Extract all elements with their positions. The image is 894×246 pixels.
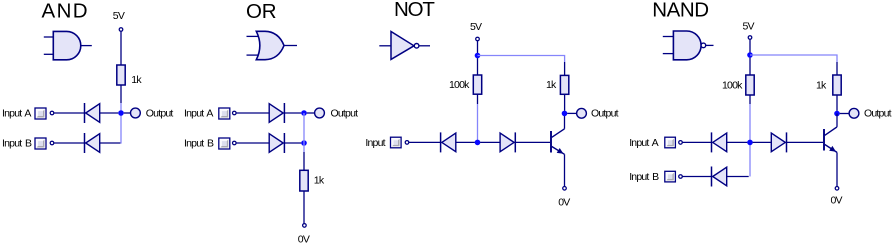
svg-text:1k: 1k — [131, 74, 142, 86]
svg-text:Input A: Input A — [184, 108, 213, 120]
wire D1 to node (OR) — [284, 112, 301, 114]
wire D2 to Q1 base (NOT) — [515, 141, 550, 143]
svg-text:Output: Output — [146, 108, 174, 120]
wire R1 to input node (NOT, light) — [477, 104, 479, 142]
svg-text:100k: 100k — [449, 79, 470, 91]
input switch Input A (AND) — [35, 108, 46, 119]
transistor Q1 (NAND) — [824, 127, 837, 152]
label Input A (AND) — [2, 108, 31, 120]
svg-text:0V: 0V — [558, 196, 570, 208]
wire 5V to R1 (AND) — [120, 32, 122, 65]
svg-text:Input A: Input A — [629, 137, 658, 149]
title AND — [42, 0, 89, 23]
junction output node (OR) — [301, 110, 307, 116]
wire D2 to node (AND) — [100, 142, 121, 144]
wire R2 to output node (NAND) — [836, 95, 838, 111]
label 0V (NOT) — [558, 196, 570, 208]
svg-text:Output: Output — [591, 108, 619, 120]
resistor R2 1k (NOT) — [560, 75, 568, 94]
label Input B (NAND) — [629, 171, 659, 183]
5V supply terminal (NAND) — [748, 36, 752, 40]
wire Q1 collector to node (NAND) — [836, 114, 838, 127]
wire R1 to 0V (OR) — [303, 191, 305, 224]
wire D1 to node (NAND) — [727, 141, 748, 143]
value label 100k (NAND) — [722, 80, 743, 92]
wire 5V node to R2 1k (NOT, light) — [478, 56, 565, 63]
svg-text:100k: 100k — [722, 80, 743, 92]
svg-text:0V: 0V — [831, 195, 843, 207]
junction 5V node (NOT) — [475, 53, 481, 59]
wire input B to D2 (AND) — [54, 142, 85, 144]
title NAND — [652, 0, 708, 22]
output terminal (AND) — [131, 108, 141, 118]
svg-text:Input B: Input B — [184, 138, 214, 150]
svg-text:OR: OR — [246, 0, 276, 23]
output terminal (NOT) — [577, 108, 587, 118]
svg-text:NOT: NOT — [394, 0, 435, 21]
title NOT — [394, 0, 435, 21]
svg-text:NAND: NAND — [652, 0, 708, 22]
5V supply terminal (AND) — [119, 28, 123, 32]
wire input A to D1 (AND) — [54, 112, 85, 114]
wire R1 lead down (NOT) — [477, 94, 479, 104]
diode D2 (NOT) — [500, 132, 515, 152]
label 0V (NAND) — [831, 195, 843, 207]
wire node to output (NAND) — [840, 113, 849, 115]
transistor Q1 (NOT) — [551, 129, 565, 155]
value label 1k (OR) — [314, 175, 325, 187]
input switch Input B (NAND) — [665, 171, 676, 182]
wire R1 lead down (NAND) — [749, 95, 751, 104]
value label 1k (NOT) — [546, 79, 557, 91]
svg-text:5V: 5V — [113, 10, 125, 22]
wire R1 to input node (NAND, light) — [749, 104, 751, 177]
wire D3 to Q1 base (NAND) — [787, 141, 824, 143]
svg-text:1k: 1k — [314, 175, 325, 187]
input terminal B (OR) — [233, 141, 237, 145]
NOT gate symbol — [379, 32, 430, 60]
diode D2 (OR input B) — [269, 133, 284, 153]
junction input node (NAND) — [747, 140, 753, 146]
wire 5V node to R2 1k (NAND, light) — [750, 55, 837, 62]
wire input A to D1 (NAND) — [682, 141, 711, 143]
input terminal A (OR) — [233, 111, 237, 115]
0V ground terminal (NOT) — [563, 187, 567, 191]
label 5V (NOT supply) — [470, 21, 482, 33]
wire 5V node to R1 (NOT) — [477, 58, 479, 75]
junction output node (NAND) — [834, 111, 840, 117]
input switch Input (NOT) — [391, 137, 402, 148]
svg-text:1k: 1k — [816, 80, 827, 92]
svg-text:Output: Output — [864, 108, 892, 120]
NAND gate symbol — [663, 31, 714, 60]
input terminal B (NAND) — [679, 175, 683, 179]
diode D1 (AND input A) — [85, 103, 100, 123]
wire D2 to node column (NAND) — [727, 176, 749, 178]
label Output (OR) — [331, 108, 359, 120]
input switch Input B (AND) — [35, 138, 46, 149]
wire node B to R1 (OR) — [303, 152, 305, 170]
label Output (NOT) — [591, 108, 619, 120]
OR gate symbol — [247, 31, 298, 59]
input switch Input A (NAND) — [665, 137, 676, 148]
junction 5V node (NAND) — [747, 52, 753, 58]
input terminal (NOT) — [405, 141, 409, 145]
title OR — [246, 0, 276, 23]
value label 100k (NOT) — [449, 79, 470, 91]
diode D2 (NAND input B) — [712, 167, 727, 187]
label Input (NOT) — [365, 137, 385, 149]
5V supply terminal (NOT) — [476, 37, 480, 41]
input terminal B (AND) — [50, 141, 54, 145]
wire node to D2 (NOT) — [480, 141, 500, 143]
diode D3 (NAND) — [771, 132, 786, 152]
wire R1 to output node (AND, light) — [120, 103, 122, 144]
wire input B to D2 (OR) — [236, 142, 269, 144]
junction output node (NOT) — [562, 111, 568, 117]
0V ground terminal (NAND) — [835, 187, 839, 191]
label Input B (OR) — [184, 138, 214, 150]
resistor R1 100k (NOT) — [473, 75, 481, 94]
junction output node (AND) — [118, 110, 124, 116]
wire R2 to output node (NOT) — [564, 94, 566, 111]
value label 1k (AND) — [131, 74, 142, 86]
wire lead to R2 (NAND) — [836, 62, 838, 75]
svg-text:5V: 5V — [743, 21, 755, 33]
input terminal A (NAND) — [679, 141, 683, 145]
junction input node (NOT) — [475, 140, 481, 146]
wire input A to D1 (OR) — [236, 112, 269, 114]
wire lead to R2 (NOT) — [564, 62, 566, 75]
diode D1 (OR input A) — [269, 103, 284, 123]
wire R1 lead down (AND) — [120, 85, 122, 103]
resistor R1 1k (AND) — [117, 65, 125, 85]
wire D1 to node (NOT) — [456, 141, 475, 143]
output terminal (NAND) — [849, 108, 859, 118]
label 5V (AND supply) — [113, 10, 125, 22]
AND gate symbol — [44, 31, 92, 59]
svg-text:Input A: Input A — [2, 108, 31, 120]
wire Q1 emitter to 0V (NAND) — [836, 152, 838, 186]
wire Q1 collector to node (NOT) — [564, 113, 566, 128]
label Output (AND) — [146, 108, 174, 120]
label Input A (OR) — [184, 108, 213, 120]
junction node B (OR) — [301, 140, 307, 146]
wire node A to node B (OR, light) — [303, 113, 305, 152]
wire node to output (NOT) — [567, 112, 576, 114]
label 0V (OR) — [298, 233, 310, 245]
value label 1k (NAND) — [816, 80, 827, 92]
svg-text:Input B: Input B — [629, 171, 659, 183]
wire node to D3 (NAND) — [753, 141, 772, 143]
wire node to output (AND) — [124, 112, 131, 114]
wire Q1 emitter to 0V (NOT) — [564, 154, 566, 186]
wire node to output (OR) — [307, 112, 315, 114]
output terminal (OR) — [315, 108, 325, 118]
resistor R1 1k (OR) — [300, 170, 308, 191]
label 5V (NAND supply) — [743, 21, 755, 33]
wire 5V to node (NAND) — [749, 40, 751, 54]
input terminal A (AND) — [50, 111, 54, 115]
diode D1 (NAND input A) — [712, 132, 727, 152]
input switch Input B (OR) — [219, 138, 230, 149]
label Output (NAND) — [864, 108, 892, 120]
svg-text:1k: 1k — [546, 79, 557, 91]
resistor R2 1k (NAND) — [833, 75, 841, 95]
diode D2 (AND input B) — [85, 133, 100, 153]
svg-text:Output: Output — [331, 108, 359, 120]
wire 5V node to R1 (NAND) — [749, 58, 751, 75]
wire D1 to node (AND) — [100, 112, 119, 114]
resistor R1 100k (NAND) — [746, 75, 754, 95]
svg-text:Input: Input — [365, 137, 385, 149]
wire input to D1 (NOT) — [409, 141, 441, 143]
input switch Input A (OR) — [219, 108, 230, 119]
svg-text:0V: 0V — [298, 233, 310, 245]
wire 5V to node (NOT) — [477, 41, 479, 54]
diode D1 (NOT) — [441, 132, 456, 152]
label Input B (AND) — [2, 138, 32, 150]
0V ground terminal (OR) — [303, 224, 307, 228]
label Input A (NAND) — [629, 137, 658, 149]
svg-text:AND: AND — [42, 0, 89, 23]
wire input B to D2 (NAND) — [682, 176, 711, 178]
svg-text:5V: 5V — [470, 21, 482, 33]
svg-text:Input B: Input B — [2, 138, 32, 150]
wire D2 to node B (OR) — [284, 142, 301, 144]
